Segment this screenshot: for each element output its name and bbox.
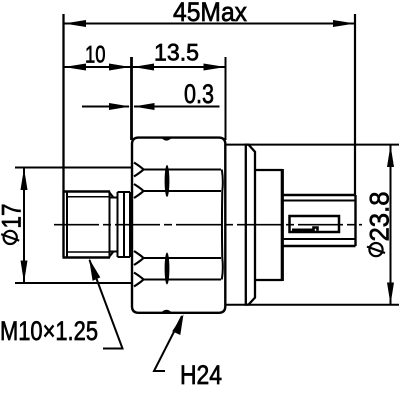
flange disc	[246, 145, 255, 305]
extension line right (45Max)	[354, 14, 356, 196]
svg-text:H24: H24	[180, 360, 222, 390]
thread bottom edge	[63, 256, 111, 258]
dim 10/13.5 line	[64, 66, 226, 68]
arrow 45Max right	[333, 20, 355, 27]
phi17 extension top	[15, 167, 131, 169]
extension line left (45Max/10)	[62, 14, 64, 192]
barrel inner bottom	[283, 238, 356, 240]
phi23.8 dim line	[390, 145, 392, 305]
hex chamfer lens upper	[165, 165, 170, 197]
connector slot	[290, 216, 340, 232]
terminal blade	[292, 228, 318, 231]
phi symbol 17	[4, 231, 17, 244]
thread top edge	[63, 190, 111, 192]
barrel end face	[354, 195, 356, 246]
dim 0.3 lead right	[134, 106, 220, 108]
washer mid line	[123, 192, 125, 257]
arrow 10 right	[109, 64, 130, 71]
ring top edge	[255, 169, 282, 171]
svg-text:10: 10	[85, 42, 106, 69]
thread minor dia top	[67, 196, 110, 198]
arrow 13.5 left	[133, 64, 154, 71]
neck top	[110, 197, 118, 199]
arrow leader M10	[89, 259, 100, 281]
barrel inner top	[283, 200, 356, 202]
neck bottom	[110, 251, 118, 253]
washer bottom edge	[118, 256, 131, 258]
hex right chamfer arc	[222, 170, 223, 280]
thread face line	[62, 192, 64, 258]
hex chamfer bump top edge	[161, 137, 173, 141]
hex facet line lower2	[144, 279, 222, 281]
hex chamfer bump bottom edge	[161, 310, 173, 314]
arrow 0.3 left-point	[134, 103, 155, 110]
arrow 0.3 right-point	[109, 103, 130, 110]
washer right face	[129, 192, 131, 257]
hex facet chevron upper2 left	[134, 184, 144, 198]
thread runout chamfer top	[110, 193, 114, 198]
thread runout chamfer bottom	[110, 252, 114, 257]
hex facet line lower1	[144, 257, 222, 259]
arrow phi17 down	[21, 261, 28, 283]
ring bottom edge	[255, 279, 282, 281]
phi23.8 extension bottom	[227, 304, 400, 306]
extension line hex left (10/13.5/0.3)	[130, 57, 133, 140]
thread end face	[109, 192, 111, 258]
hex chamfer lens lower	[165, 253, 170, 285]
hex facet line upper1	[144, 169, 222, 171]
hex facet line upper2	[144, 190, 222, 192]
arrow 45Max left	[64, 20, 86, 27]
hex body outline	[132, 138, 225, 313]
svg-text:13.5: 13.5	[154, 40, 199, 67]
svg-text:17: 17	[0, 204, 27, 229]
hex facet chevron upper1 left	[134, 163, 144, 177]
hex facet chevron lower2 left	[134, 273, 144, 287]
phi17 dim line	[23, 168, 25, 283]
thread chamfer line	[66, 192, 68, 258]
centerline	[54, 224, 362, 226]
leader M10 line	[90, 260, 123, 349]
extension line hex right (13.5/0.3)	[225, 57, 227, 140]
arrow leader H24	[172, 314, 183, 335]
hex facet chevron lower1 left	[134, 251, 144, 265]
dim 45Max line	[64, 23, 355, 25]
svg-text:23.8: 23.8	[365, 192, 395, 242]
svg-text:0.3: 0.3	[184, 79, 214, 109]
leader H24 line	[154, 316, 182, 371]
arrow phi17 up	[21, 168, 28, 190]
phi symbol 23.8	[369, 243, 382, 256]
barrel outer bottom	[283, 245, 356, 247]
washer left face	[117, 192, 119, 257]
svg-text:45Max: 45Max	[173, 0, 247, 27]
thread minor dia bottom	[67, 251, 110, 253]
phi23.8 extension top	[227, 144, 400, 146]
barrel outer top	[283, 194, 356, 196]
arrow phi23.8 up	[387, 145, 394, 167]
ring right edge bold	[281, 169, 284, 281]
arrow 13.5 right	[204, 64, 226, 71]
arrow 10 left	[64, 64, 86, 71]
phi17 extension bottom	[15, 282, 131, 284]
arrow phi23.8 down	[387, 283, 394, 305]
dim 0.3 lead left	[82, 106, 129, 108]
svg-text:M10×1.25: M10×1.25	[0, 316, 98, 346]
washer top edge	[118, 191, 131, 193]
